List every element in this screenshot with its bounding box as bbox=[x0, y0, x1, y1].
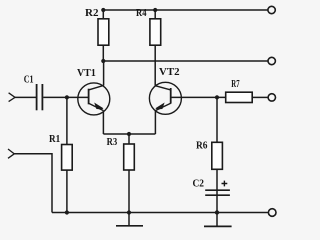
label VT2 bbox=[159, 66, 180, 78]
svg-text:C2: C2 bbox=[193, 178, 205, 190]
node junction R2/top rail bbox=[101, 8, 105, 12]
transistor VT2 bbox=[149, 82, 181, 134]
svg-text:R7: R7 bbox=[231, 78, 240, 90]
capacitor C1 bbox=[37, 84, 43, 110]
node junction C1/R1/base bbox=[65, 95, 69, 99]
node junction VT1 collector / R2 bbox=[101, 59, 105, 63]
wire input 1 to C1 bbox=[15, 96, 37, 98]
node junction R3 / ground rail bbox=[127, 210, 131, 214]
label R7 bbox=[231, 78, 240, 90]
label C1 bbox=[24, 73, 34, 85]
resistor R3 bbox=[124, 134, 135, 213]
svg-text:R2: R2 bbox=[85, 7, 99, 19]
wire C1 to VT1 base bbox=[43, 96, 88, 98]
input arrow 1 (top left) bbox=[9, 93, 15, 102]
resistor R7 bbox=[226, 92, 268, 102]
ground symbol left bbox=[116, 213, 143, 226]
label R6 bbox=[196, 139, 208, 151]
label VT1 bbox=[77, 67, 96, 79]
svg-text:R3: R3 bbox=[107, 136, 118, 148]
ground symbol right bbox=[204, 213, 232, 227]
label R3 bbox=[107, 136, 118, 148]
wire emitters join bbox=[103, 133, 155, 135]
resistor R4 bbox=[150, 10, 161, 86]
svg-text:VT1: VT1 bbox=[77, 67, 96, 79]
svg-text:R1: R1 bbox=[49, 133, 60, 145]
terminal ground (bottom right) bbox=[268, 209, 276, 217]
wire collector bus to output terminal 2 bbox=[103, 60, 267, 62]
terminal output 3 (right, third) bbox=[268, 94, 275, 101]
svg-text:VT2: VT2 bbox=[159, 66, 180, 78]
label C2 bbox=[193, 178, 205, 190]
svg-text:C1: C1 bbox=[24, 73, 34, 85]
wire VT2 base to R7 bbox=[171, 96, 226, 98]
label plus polarity C2 bbox=[222, 181, 228, 187]
wire input 2 down to ground rail bbox=[14, 154, 52, 213]
transistor VT1 bbox=[78, 61, 110, 134]
terminal supply (top right) bbox=[268, 6, 275, 13]
svg-text:R4: R4 bbox=[136, 7, 147, 19]
resistor R1 bbox=[62, 97, 73, 212]
label R1 bbox=[49, 133, 60, 145]
svg-text:R6: R6 bbox=[196, 139, 208, 151]
terminal output 2 (right, second) bbox=[268, 57, 275, 64]
node junction R1 / ground rail bbox=[65, 210, 69, 214]
resistor R6 bbox=[212, 97, 223, 190]
capacitor C2 bbox=[205, 190, 230, 213]
node junction R6 / base wire bbox=[215, 95, 219, 99]
input arrow 2 (bottom left) bbox=[8, 149, 14, 158]
node junction R4/top rail bbox=[153, 8, 157, 12]
wire top supply rail bbox=[103, 9, 268, 11]
wire bottom ground rail bbox=[52, 212, 268, 214]
resistor R2 bbox=[98, 10, 109, 61]
label R4 bbox=[136, 7, 147, 19]
node junction emitters / R3 bbox=[127, 132, 131, 136]
node junction C2 / ground rail bbox=[215, 210, 219, 214]
label R2 bbox=[85, 7, 99, 19]
